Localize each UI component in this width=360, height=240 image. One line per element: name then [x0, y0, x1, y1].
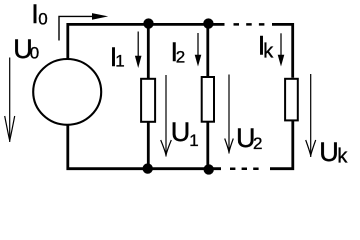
svg-text:2: 2	[176, 47, 185, 66]
svg-text:2: 2	[253, 134, 262, 153]
svg-text:U: U	[319, 137, 339, 167]
svg-text:k: k	[263, 40, 274, 62]
svg-text:U: U	[171, 117, 191, 147]
svg-text:1: 1	[115, 51, 124, 70]
svg-text:1: 1	[189, 131, 198, 150]
svg-text:0: 0	[38, 10, 47, 29]
svg-text:k: k	[337, 145, 348, 167]
svg-text:0: 0	[30, 44, 39, 63]
